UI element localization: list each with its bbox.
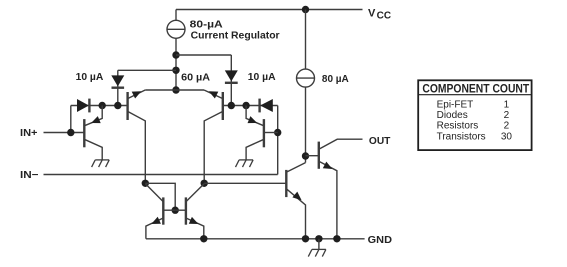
svg-text:Resistors: Resistors [437,121,479,132]
svg-text:CC: CC [377,10,391,21]
svg-text:10 µA: 10 µA [76,72,104,83]
svg-text:V: V [368,8,376,20]
svg-text:10 µA: 10 µA [248,72,276,83]
svg-text:Epi-FET: Epi-FET [437,99,474,110]
svg-text:GND: GND [368,235,392,246]
svg-text:1: 1 [504,99,510,110]
svg-text:2: 2 [504,121,510,132]
svg-text:IN−: IN− [20,170,39,181]
svg-text:80 µA: 80 µA [322,74,349,85]
svg-text:COMPONENT COUNT: COMPONENT COUNT [422,81,529,95]
svg-text:30: 30 [501,131,513,142]
svg-text:80-µA: 80-µA [190,19,223,30]
svg-text:IN+: IN+ [20,128,38,139]
svg-text:Diodes: Diodes [437,110,468,121]
svg-text:60 µA: 60 µA [181,73,210,84]
svg-text:Current Regulator: Current Regulator [191,31,280,42]
svg-text:2: 2 [504,110,510,121]
svg-text:Transistors: Transistors [437,131,486,142]
svg-text:OUT: OUT [369,136,391,147]
